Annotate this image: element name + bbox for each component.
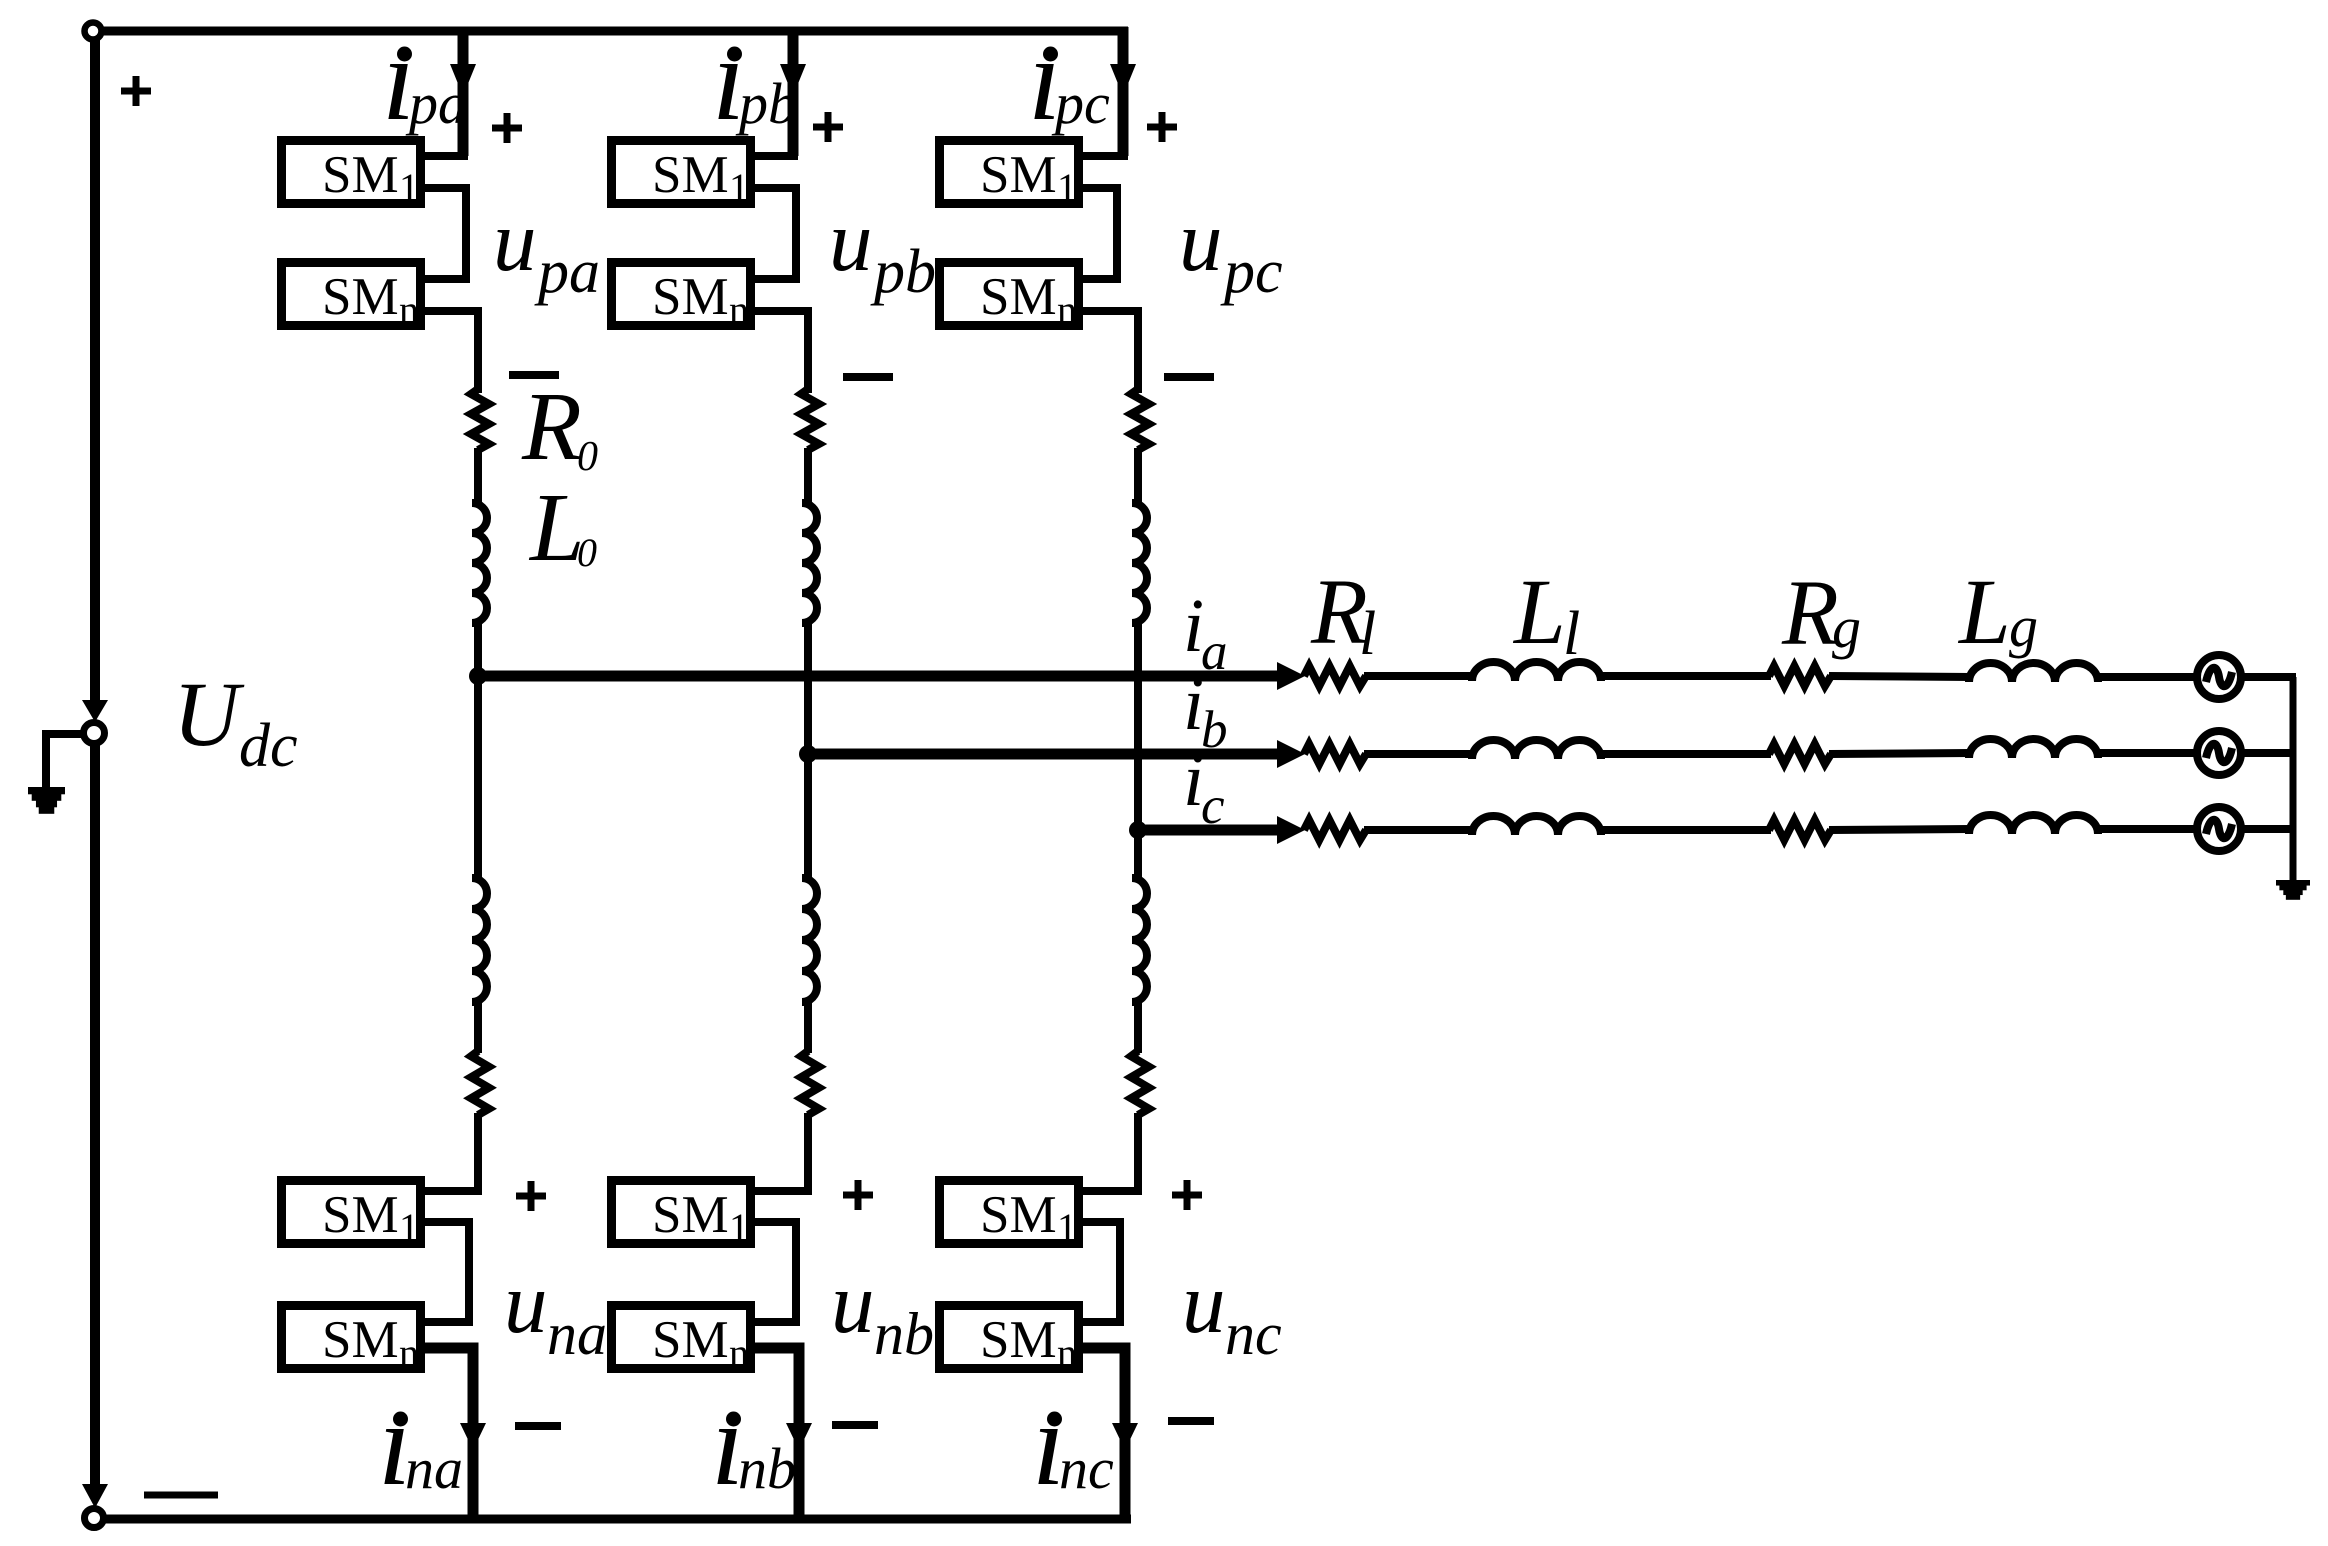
svg-text:SM: SM — [652, 1311, 729, 1369]
wire: Rg to Lg (line b) — [1829, 753, 1971, 754]
wire: SM1 top pin (upper b) — [751, 152, 798, 160]
svg-text:SM: SM — [980, 146, 1057, 204]
label: Rl — [1310, 561, 1376, 668]
svg-text:nb: nb — [874, 1301, 934, 1367]
svg-text:R: R — [1781, 562, 1839, 665]
label: + (u_pa polarity) — [492, 113, 522, 143]
label: L0 — [528, 474, 597, 582]
label: u_nc — [1182, 1254, 1282, 1367]
svg-text:pc: pc — [1051, 71, 1110, 136]
svg-text:u: u — [504, 1254, 548, 1351]
label: - (u_pc polarity) — [1164, 373, 1214, 381]
svg-text:SM: SM — [652, 1186, 729, 1244]
inductor Ll (line c) — [1472, 816, 1601, 835]
submodule SM1 (upper arm a) — [282, 141, 421, 211]
arrow i_c — [1277, 816, 1305, 844]
wire: AC line c (thick, node to arrow) — [1138, 825, 1280, 836]
wire: SM1-SMn link (upper b) — [751, 188, 796, 279]
inductor L0 (upper arm b) — [802, 503, 817, 623]
wire: lower inductor to resistor (b) — [804, 1000, 812, 1053]
label: Ll — [1512, 561, 1580, 668]
label: R0 — [521, 373, 598, 481]
wire: AC neutral bus (right) — [2290, 677, 2297, 884]
svg-text:nc: nc — [1225, 1301, 1282, 1367]
label: u_pa — [493, 192, 600, 306]
arrow i_b — [1277, 740, 1305, 768]
wire: node c to lower arm inductor — [1134, 830, 1142, 880]
arrow i_na — [460, 1423, 486, 1450]
label: + (u_nc polarity) — [1172, 1180, 1202, 1210]
svg-text:n: n — [729, 1330, 749, 1375]
AC source a — [2197, 655, 2241, 699]
resistor R0 (lower arm a) — [471, 1051, 489, 1115]
arrow i_nc — [1112, 1423, 1138, 1450]
svg-text:nc: nc — [1059, 1436, 1114, 1501]
submodule SMn (upper arm c) — [940, 263, 1079, 333]
wire: SM1 top pin (upper a) — [421, 152, 468, 160]
wire: SMn to arm resistor (upper b) — [751, 311, 808, 393]
submodule SMn (lower arm b) — [612, 1306, 751, 1376]
resistor Rl (line b) — [1304, 744, 1366, 764]
svg-text:SM: SM — [322, 1186, 399, 1244]
wire: SM1-SMn link (lower b) — [751, 1222, 796, 1322]
label: + (u_na polarity) — [516, 1181, 546, 1211]
svg-text:1: 1 — [399, 165, 419, 210]
resistor Rl (line c) — [1304, 820, 1366, 840]
arrow i_pa — [450, 64, 476, 96]
wire: lower resistor to SM1 (a) — [421, 1113, 478, 1191]
svg-text:U: U — [173, 663, 245, 765]
wire: R0 to L0 (upper a) — [474, 448, 482, 505]
wire: AC line a (thick, node to arrow) — [478, 671, 1280, 682]
wire: left DC rail upper — [90, 38, 100, 702]
label: i_c — [1183, 738, 1225, 835]
wire: node b to lower arm inductor — [804, 754, 812, 880]
DC source mid terminal — [84, 723, 105, 744]
wire: SM1-SMn link (lower c) — [1079, 1222, 1120, 1322]
inductor Lg (line c) — [1969, 815, 2098, 834]
inductor Lg (line a) — [1969, 663, 2098, 682]
wire: SM1-SMn link (upper a) — [421, 188, 466, 279]
svg-text:g: g — [2009, 594, 2038, 659]
wire: SMn to bottom DC bus (b) — [751, 1348, 799, 1519]
svg-text:na: na — [405, 1436, 463, 1501]
submodule SMn (lower arm a) — [282, 1306, 421, 1376]
wire: left DC rail lower — [90, 744, 100, 1486]
submodule SM1 (upper arm b) — [612, 141, 751, 211]
label: i_na — [378, 1377, 463, 1510]
svg-text:1: 1 — [729, 165, 749, 210]
svg-text:n: n — [729, 287, 749, 332]
label: i_pc — [1028, 12, 1110, 145]
wire: phase c upper drop from DC bus — [1118, 27, 1129, 156]
wire: SM1 top pin (upper c) — [1079, 152, 1128, 160]
arrow i_pb — [780, 64, 806, 96]
svg-text:u: u — [1179, 192, 1223, 289]
inductor Ll (line a) — [1472, 662, 1601, 681]
wire: AC line b (thick, node to arrow) — [808, 749, 1280, 760]
resistor Rl (line a) — [1304, 666, 1366, 686]
svg-text:na: na — [547, 1301, 607, 1367]
ground (DC midpoint) — [28, 787, 65, 814]
label: u_pb — [829, 192, 936, 306]
submodule SMn (upper arm b) — [612, 263, 751, 333]
label: + (u_pc polarity) — [1147, 112, 1177, 142]
wire: lower inductor to resistor (a) — [474, 1000, 482, 1053]
wire: source b to neutral bus — [2241, 749, 2296, 757]
label: + (DC positive) — [121, 76, 151, 106]
wire: lower inductor to resistor (c) — [1134, 1000, 1142, 1053]
svg-text:SM: SM — [980, 1186, 1057, 1244]
submodule SM1 (lower arm b) — [612, 1181, 751, 1251]
wire: bottom DC bus — [104, 1515, 1131, 1524]
arrow: DC current (lower) — [82, 1484, 108, 1508]
inductor Ll (line b) — [1472, 740, 1601, 759]
inductor L0 (upper arm c) — [1132, 503, 1147, 623]
svg-text:SM: SM — [652, 146, 729, 204]
svg-text:SM: SM — [652, 268, 729, 326]
label: - (u_pa polarity) — [509, 371, 559, 379]
svg-text:b: b — [1201, 701, 1228, 759]
svg-text:n: n — [399, 1330, 419, 1375]
svg-text:L: L — [1957, 561, 2011, 664]
submodule SMn (lower arm c) — [940, 1306, 1079, 1376]
DC negative terminal (bottom-left) — [85, 1509, 104, 1528]
svg-text:dc: dc — [239, 712, 298, 780]
label: u_nb — [831, 1254, 934, 1367]
svg-text:1: 1 — [399, 1205, 419, 1250]
node a (AC midpoint junction) — [469, 667, 487, 685]
label: - (u_pb polarity) — [843, 373, 893, 381]
svg-text:u: u — [493, 192, 537, 289]
arrow i_a — [1277, 662, 1305, 690]
svg-text:nb: nb — [738, 1436, 796, 1501]
svg-text:pa: pa — [405, 71, 467, 136]
label: - (u_na polarity) — [515, 1422, 561, 1430]
wire: Lg to source (line c) — [2098, 825, 2198, 833]
label: i_pb — [712, 12, 797, 145]
label: Udc — [173, 663, 298, 780]
wire: L0 to AC node b — [804, 621, 812, 754]
wire: lower resistor to SM1 (c) — [1079, 1113, 1138, 1191]
svg-text:c: c — [1201, 777, 1225, 835]
svg-text:pa: pa — [534, 238, 600, 306]
ground (AC neutral) — [2276, 880, 2310, 900]
wire: ground stub from DC midpoint — [46, 734, 84, 788]
wire: Rl to Ll (line c) — [1364, 826, 1474, 834]
node b (AC midpoint junction) — [799, 745, 817, 763]
submodule SMn (upper arm a) — [282, 263, 421, 333]
label: Rg — [1781, 562, 1861, 665]
resistor R0 (upper arm a) — [471, 389, 489, 450]
svg-text:n: n — [1057, 1330, 1077, 1375]
label: - (u_nb polarity) — [832, 1421, 878, 1429]
svg-text:0: 0 — [577, 530, 597, 575]
inductor L0 (lower arm b) — [802, 878, 817, 1002]
wire: Rg to Lg (line a) — [1829, 676, 1971, 677]
wire: R0 to L0 (upper b) — [804, 448, 812, 505]
wire: Rl to Ll (line a) — [1364, 672, 1474, 680]
svg-text:n: n — [399, 287, 419, 332]
svg-text:SM: SM — [980, 1311, 1057, 1369]
svg-text:pb: pb — [870, 238, 936, 306]
wire: Lg to source (line a) — [2098, 673, 2198, 681]
resistor Rg (line a) — [1769, 666, 1831, 686]
wire: SMn to arm resistor (upper a) — [421, 311, 478, 393]
svg-text:SM: SM — [980, 268, 1057, 326]
resistor R0 (upper arm b) — [801, 389, 819, 450]
label: i_b — [1183, 662, 1228, 759]
label: i_pa — [382, 12, 467, 145]
label: i_nb — [711, 1377, 796, 1510]
label: + (u_pb polarity) — [813, 112, 843, 142]
label: u_na — [504, 1254, 607, 1367]
resistor R0 (lower arm b) — [801, 1051, 819, 1115]
resistor Rg (line b) — [1769, 744, 1831, 764]
label: Lg — [1957, 561, 2038, 664]
svg-text:a: a — [1201, 623, 1228, 681]
wire: source a to neutral bus — [2241, 673, 2296, 681]
svg-text:1: 1 — [729, 1205, 749, 1250]
svg-text:u: u — [831, 1254, 875, 1351]
wire: R0 to L0 (upper c) — [1134, 448, 1142, 505]
resistor R0 (upper arm c) — [1131, 389, 1149, 450]
label: i_nc — [1032, 1377, 1114, 1510]
wire: L0 to AC node c — [1134, 621, 1142, 830]
label: - (u_nc polarity) — [1168, 1417, 1214, 1425]
resistor Rg (line c) — [1769, 820, 1831, 840]
wire: Ll to Rg (line a) — [1601, 672, 1771, 680]
label: + (u_nb polarity) — [843, 1180, 873, 1210]
svg-text:l: l — [1359, 600, 1376, 668]
wire: node a to lower arm inductor — [474, 676, 482, 880]
wire: SMn to bottom DC bus (a) — [421, 1348, 473, 1519]
wire: L0 to AC node a — [474, 621, 482, 676]
wire: Lg to source (line b) — [2098, 749, 2198, 757]
DC positive terminal (top-left) — [85, 23, 102, 40]
wire: Ll to Rg (line c) — [1601, 826, 1771, 834]
wire: Rg to Lg (line c) — [1829, 829, 1971, 830]
svg-text:R: R — [521, 373, 582, 481]
resistor R0 (lower arm c) — [1131, 1051, 1149, 1115]
AC source c — [2197, 807, 2241, 851]
svg-text:u: u — [1182, 1254, 1226, 1351]
label: - (DC negative) — [144, 1492, 218, 1499]
svg-text:SM: SM — [322, 268, 399, 326]
svg-text:l: l — [1563, 600, 1580, 668]
inductor Lg (line b) — [1969, 739, 2098, 758]
wire: SMn to arm resistor (upper c) — [1079, 311, 1138, 393]
node c (AC midpoint junction) — [1129, 821, 1147, 839]
arrow i_pc — [1110, 64, 1136, 96]
wire: SM1-SMn link (upper c) — [1079, 188, 1117, 279]
svg-text:SM: SM — [322, 1311, 399, 1369]
wire: phase b upper drop from DC bus — [788, 27, 799, 156]
svg-text:pb: pb — [735, 71, 797, 136]
submodule SM1 (upper arm c) — [940, 141, 1079, 211]
wire: lower resistor to SM1 (b) — [751, 1113, 808, 1191]
svg-text:n: n — [1057, 287, 1077, 332]
svg-text:1: 1 — [1057, 165, 1077, 210]
inductor L0 (lower arm a) — [472, 878, 487, 1002]
svg-text:L: L — [1512, 561, 1566, 664]
arrow: DC current into source (upper) — [82, 700, 108, 722]
wire: Rl to Ll (line b) — [1364, 750, 1474, 758]
label: i_a — [1183, 584, 1228, 681]
AC source b — [2197, 731, 2241, 775]
wire: source c to neutral bus — [2241, 825, 2296, 833]
svg-text:pc: pc — [1220, 238, 1283, 306]
inductor L0 (upper arm a) — [472, 503, 487, 623]
wire: phase a upper drop from DC bus — [458, 27, 469, 156]
label: u_pc — [1179, 192, 1283, 306]
svg-text:SM: SM — [322, 146, 399, 204]
wire: Ll to Rg (line b) — [1601, 750, 1771, 758]
wire: SM1-SMn link (lower a) — [421, 1222, 469, 1322]
inductor L0 (lower arm c) — [1132, 878, 1147, 1002]
arrow i_nb — [786, 1423, 812, 1450]
svg-text:1: 1 — [1057, 1205, 1077, 1250]
submodule SM1 (lower arm c) — [940, 1181, 1079, 1251]
svg-text:g: g — [1832, 595, 1861, 660]
submodule SM1 (lower arm a) — [282, 1181, 421, 1251]
svg-text:u: u — [829, 192, 873, 289]
wire: SMn to bottom DC bus (c) — [1079, 1348, 1125, 1519]
wire: top DC bus — [104, 27, 1128, 36]
